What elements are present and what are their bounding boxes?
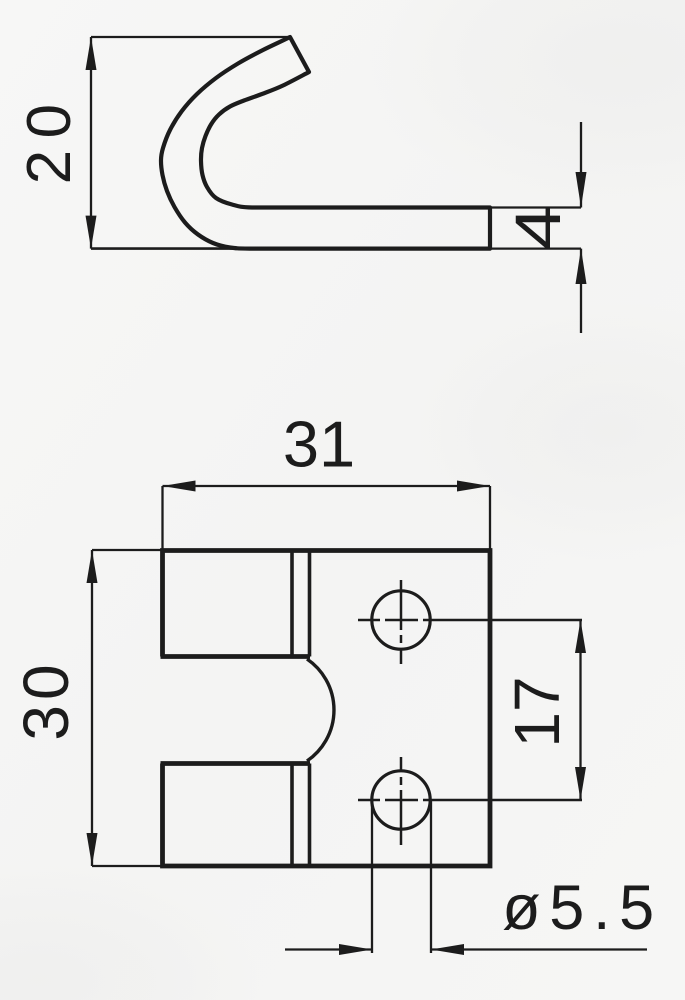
dim 20 dimension line xyxy=(90,37,92,249)
dim 31 dimension line xyxy=(163,485,491,487)
dia 5.5 leader left xyxy=(285,948,372,950)
dim 4 extension line top xyxy=(490,206,581,208)
dim 30 extension line top xyxy=(92,549,163,551)
bend line 2 upper xyxy=(308,551,312,657)
slot top edge xyxy=(161,654,311,659)
dim 20 extension line bottom xyxy=(91,247,252,250)
hole lower xyxy=(372,771,430,829)
dim 17 arrowhead bottom (points down) xyxy=(575,767,586,800)
dia 5.5 extension line right (tangent) xyxy=(430,801,432,953)
dim 30 arrowhead top xyxy=(87,550,98,583)
hole upper horizontal centerline / dim 17 extension xyxy=(358,619,582,622)
dim 31 arrowhead left xyxy=(163,481,196,492)
svg-text:ø5.5: ø5.5 xyxy=(502,873,663,943)
dim 4 arrowhead upper (points down) xyxy=(576,172,587,208)
svg-text:17: 17 xyxy=(501,676,573,747)
hole lower vertical centerline xyxy=(400,757,403,845)
svg-text:31: 31 xyxy=(283,407,355,480)
plate outline (front view, open slot on left) xyxy=(163,551,491,867)
hook profile outline (top view) xyxy=(161,37,490,249)
dim 17 arrowhead top (points up) xyxy=(575,620,586,653)
dia 5.5 arrowhead right (points left) xyxy=(431,944,464,955)
dim 20 arrowhead bottom xyxy=(86,216,97,249)
dim 4 leader line below xyxy=(580,249,582,333)
svg-text:4: 4 xyxy=(503,205,575,250)
dim 31 extension line right xyxy=(489,486,491,551)
hole upper xyxy=(372,591,430,649)
dim 31 arrowhead right xyxy=(457,481,490,492)
dia 5.5 extension line left (tangent) xyxy=(371,801,373,953)
dim 30 dimension line xyxy=(91,550,93,866)
dia 5.5 arrowhead left (points right) xyxy=(339,944,372,955)
dia 5.5 leader right xyxy=(431,948,647,950)
dim 4 extension line bottom xyxy=(490,247,581,249)
dim 4 arrowhead lower (points up) xyxy=(576,249,587,284)
slot end arc xyxy=(307,659,334,761)
dim 31 extension line left xyxy=(161,486,163,551)
bend line 1 upper xyxy=(290,551,294,657)
dim 30 arrowhead bottom xyxy=(87,833,98,866)
dim 30 extension line bottom xyxy=(92,865,163,867)
dim 20 arrowhead top xyxy=(86,37,97,70)
dim 20 extension line top xyxy=(91,36,290,38)
bend line 1 lower xyxy=(290,764,294,867)
dim 17 dimension line xyxy=(579,620,581,800)
dim 4 leader line above xyxy=(580,122,582,208)
bend line 2 lower xyxy=(308,764,312,867)
hole lower horizontal centerline / dim 17 extension xyxy=(358,799,582,802)
svg-text:20: 20 xyxy=(15,92,84,184)
slot bottom edge xyxy=(161,761,311,766)
svg-text:30: 30 xyxy=(10,659,82,740)
hole upper vertical centerline xyxy=(400,580,403,664)
